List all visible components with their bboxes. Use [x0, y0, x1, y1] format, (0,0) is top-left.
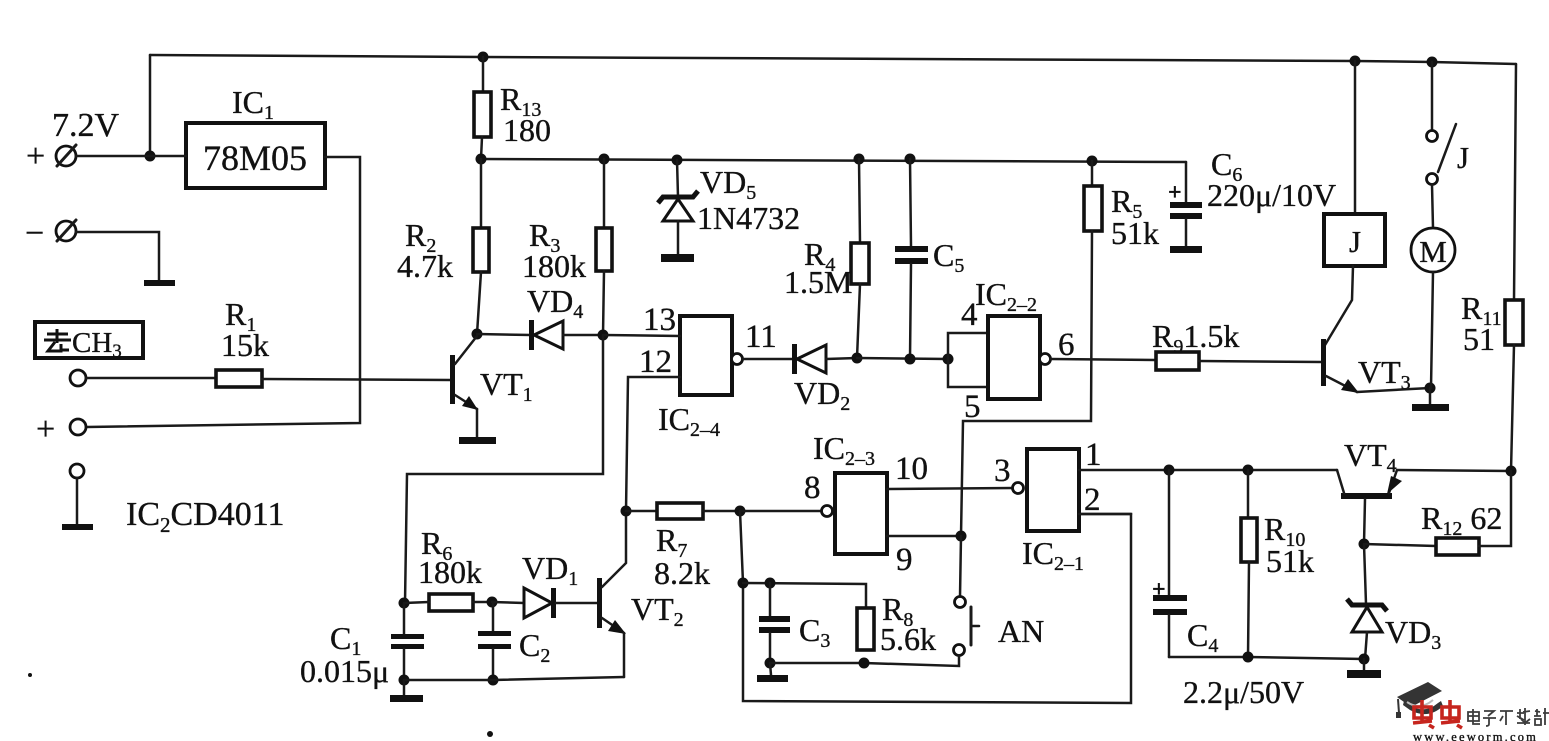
resistor R2 — [473, 228, 489, 272]
node: C3 row tie — [738, 578, 749, 589]
svg-text:M: M — [1419, 234, 1447, 269]
node: C5 bottom — [905, 354, 916, 365]
node: R11 / R12 corner — [1506, 466, 1517, 477]
wire: R5 from +5V rail — [1091, 161, 1094, 186]
watermark: dianzi xiazaizhan text — [1468, 708, 1549, 726]
transistor Q4: VT4 left lead — [1337, 470, 1344, 493]
wire: rail to C5 top plate — [910, 159, 911, 246]
terminal: CH3 signal circle — [70, 370, 86, 386]
wire: input tie loop to pins 4 and 5 — [948, 333, 988, 359]
node: C2 bottom — [488, 675, 499, 686]
node: R8 bottom — [859, 658, 870, 669]
capacitor C3 — [759, 583, 790, 663]
wire: IC1 output down and left to +5V terminal row — [87, 157, 360, 427]
wire: relay to VT3 collector — [1325, 266, 1353, 345]
capacitor C2 — [478, 602, 511, 680]
node: C3 top — [765, 578, 776, 589]
wire: top supply rail — [150, 55, 1516, 64]
nand gate IC2-4 box — [680, 316, 732, 395]
wire: node to R12 — [1364, 544, 1436, 546]
resistor R5 — [1084, 186, 1102, 231]
wire: R5 bottom crossing gate-6 wire down then left to pin9 column — [961, 231, 1092, 536]
wire: top rail corner down to R11 — [1514, 64, 1516, 300]
wire: pin 10 output to IC2-1 bubble — [887, 488, 1013, 489]
node: C1 bottom — [399, 675, 410, 686]
diode VD2 — [792, 344, 857, 374]
wire: node to VD1 — [492, 602, 524, 603]
wire: +5V distribution rail — [481, 159, 1186, 162]
svg-text:3: 3 — [994, 453, 1011, 489]
resistor R6 — [429, 594, 473, 611]
transistor Q1: VT1 base bar — [450, 355, 455, 404]
wire: rail to switch — [1431, 62, 1434, 130]
svg-text:8: 8 — [804, 470, 821, 506]
node: R13/R2 — [476, 154, 487, 165]
node: R6 / C2 / VD1 — [487, 597, 498, 608]
node: C3 bottom — [765, 658, 776, 669]
capacitor C5 — [895, 246, 928, 264]
nand gate IC2-1 box — [1027, 449, 1079, 531]
nand gate IC2-2 box — [988, 316, 1040, 399]
resistor R10 — [1241, 518, 1257, 562]
terminal: battery - (slashed circle) — [56, 220, 76, 241]
label qu glyph (CJK) inside CH3 box — [44, 329, 71, 351]
svg-text:+: + — [36, 411, 55, 448]
resistor R3 — [596, 228, 612, 271]
svg-text:1N4732: 1N4732 — [697, 200, 800, 236]
node: VT4 base / R12 / VD3 — [1359, 539, 1370, 550]
wire: R10 to bottom row — [1248, 562, 1249, 657]
wire: R12 node down to VD3 — [1364, 544, 1366, 604]
wire: battery+ to junction — [76, 155, 150, 158]
node: C5 top — [905, 154, 916, 165]
node: junction battery+ / IC1 input — [145, 151, 156, 162]
ground (C3 bottom) — [757, 663, 788, 682]
transistor Q1: VT1 emitter lead with arrow — [455, 395, 478, 410]
svg-text:9: 9 — [896, 542, 913, 578]
output bubble pin 6 — [1040, 354, 1051, 365]
wire: R11 to VT4 node — [1511, 345, 1514, 471]
wire: gate 6 output to R9 — [1051, 359, 1156, 360]
node: top rail / switch column — [1427, 57, 1438, 68]
node: R10 bottom — [1243, 652, 1254, 663]
wire: node to R10 — [1247, 470, 1250, 518]
transistor Q4: VT4 right lead with arrow — [1387, 470, 1402, 494]
wire: pin 13 input — [603, 335, 680, 336]
svg-text:12: 12 — [639, 344, 672, 380]
node: IC2-2 input tie — [943, 354, 954, 365]
op-amp U1: IC1 78M05 regulator box — [186, 123, 325, 188]
terminal: spare circle above IC2 label — [70, 464, 84, 478]
stray mark bottom left — [28, 673, 32, 677]
node: pin 9 / AN column — [956, 531, 967, 542]
wire: rail to R4 — [859, 159, 860, 243]
terminal: +5V output circle — [70, 419, 86, 435]
node: VD2 / R4 — [852, 353, 863, 364]
svg-text:5: 5 — [964, 389, 981, 425]
node: R3 top — [599, 154, 610, 165]
wire: rail to R3 — [603, 159, 606, 228]
transistor Q2: VT2 emitter with arrow — [602, 618, 626, 677]
switch J blade — [1438, 124, 1456, 172]
ground (VD5 anode termination) — [661, 254, 694, 262]
capacitor C6 (electrolytic) — [1170, 202, 1202, 246]
svg-text:4.7k: 4.7k — [397, 248, 453, 284]
wire: node down, left and down to R6 node — [405, 335, 603, 603]
svg-text:2.2μ/50V: 2.2μ/50V — [1183, 674, 1304, 710]
wire: node to IC2-3 input bubble — [740, 510, 821, 513]
svg-text:13: 13 — [643, 302, 676, 338]
wire: R8 bottom row to AN bottom — [770, 656, 959, 666]
input bubble pin 3 — [1013, 483, 1024, 494]
wire: pin 9 to AN column — [887, 535, 961, 538]
node: VT2 collector / R7 / pin12 — [621, 506, 632, 517]
wire: node to ground — [1429, 388, 1432, 404]
svg-text:AN: AN — [998, 613, 1044, 649]
wire: VD2 node to IC2-2 inputs — [857, 358, 948, 359]
wire: pin 1 output to VT4 — [1079, 469, 1337, 472]
zener diode VD3 — [1347, 599, 1387, 659]
node: R7 / pin8 / C3 column — [735, 506, 746, 517]
wire: column down to AN button — [960, 536, 961, 597]
wire: R12 up to R11 node — [1479, 471, 1511, 546]
wire: pin 12 input from R7 node — [626, 377, 680, 511]
svg-text:www.eeworm.com: www.eeworm.com — [1413, 730, 1538, 741]
wire: R7 to pin8 node — [703, 510, 740, 513]
wire: left drop from top rail to battery + — [149, 55, 152, 156]
wire: bottom row C4 to VD3 — [1169, 657, 1364, 659]
svg-text:10: 10 — [895, 451, 928, 487]
svg-text:7.2V: 7.2V — [52, 107, 120, 144]
resistor R9 — [1156, 352, 1199, 370]
svg-text:J: J — [1349, 224, 1361, 259]
wire: node to R6 — [404, 602, 429, 603]
svg-text:15k: 15k — [221, 327, 269, 363]
wire: pin 2 stub — [1079, 513, 1131, 516]
transistor Q3: VT3 base bar — [1321, 339, 1326, 386]
node: R6 / C1 top — [399, 598, 410, 609]
box: qu CH3 (to CH3) — [35, 322, 143, 358]
svg-text:51k: 51k — [1111, 215, 1159, 251]
ground (VT1 emitter) — [459, 437, 496, 444]
diode VD4 — [477, 320, 604, 350]
node: R5/C6 — [1087, 156, 1098, 167]
node: VT1 collector / VD4 cathode — [472, 329, 483, 340]
wire: R13 to +5V rail — [481, 137, 482, 159]
zener diode VD5 — [658, 160, 698, 254]
motor M — [1411, 228, 1455, 272]
wire: switch to motor — [1432, 185, 1433, 228]
transistor Q2: VT2 base bar — [597, 578, 602, 628]
node: VD5 top — [672, 155, 683, 166]
node: VD3 bottom — [1359, 654, 1370, 665]
svg-text:−: − — [25, 215, 44, 252]
node: VT3 emitter / motor return — [1425, 383, 1436, 394]
diode VD1 — [524, 588, 597, 618]
wire: R6 to C2 node — [473, 601, 492, 604]
svg-text:IC2CD4011: IC2CD4011 — [126, 496, 284, 537]
nand gate IC2-3 box — [835, 473, 887, 554]
wire: node to R7 — [626, 510, 657, 513]
capacitor C4 (electrolytic) — [1153, 470, 1187, 657]
wire: terminal through R1 to VT1 base — [86, 377, 216, 380]
wire: rail to R2 — [480, 159, 483, 228]
input bubble pin 8 — [822, 506, 833, 517]
wire: VT3 emitter to ground node — [1357, 388, 1430, 392]
transistor Q1: VT1 collector lead — [455, 336, 477, 364]
ground (battery minus) — [144, 280, 175, 286]
transistor Q4: VT4 bar (horizontal) — [1341, 493, 1392, 499]
wire: IC1 input lead — [150, 155, 186, 158]
svg-text:2: 2 — [1084, 482, 1101, 518]
watermark: chongchong red characters — [1413, 700, 1462, 728]
resistor R13 — [474, 92, 491, 137]
svg-text:8.2k: 8.2k — [654, 555, 710, 591]
transistor Q2: VT2 collector lead — [602, 511, 626, 587]
svg-text:5.6k: 5.6k — [880, 621, 936, 657]
ground (spare terminal) — [62, 524, 93, 530]
wire: battery- to ground — [76, 232, 159, 280]
svg-text:0.015μ: 0.015μ — [300, 653, 389, 689]
resistor R4 — [851, 243, 869, 284]
wire: gate output to VD2 — [743, 358, 794, 361]
output bubble pin 11 — [732, 354, 743, 365]
resistor R8 — [857, 608, 874, 650]
wire: C5 bottom to gate input wire — [910, 264, 911, 359]
resistor R1 — [216, 370, 262, 387]
wire: R9 to VT3 base — [1199, 361, 1322, 362]
wire: C3 row to R8 — [743, 583, 866, 608]
svg-text:+: + — [26, 138, 45, 175]
wire: R3 down to VD4 node — [603, 271, 604, 335]
node: top rail / R13 junction — [478, 52, 489, 63]
wire: rail to R13 — [482, 57, 485, 92]
svg-text:6: 6 — [1058, 327, 1075, 363]
transistor Q3: VT3 emitter with arrow — [1326, 376, 1359, 393]
wire: column down from R7 node to C3 row and bottom return — [740, 511, 1131, 703]
svg-text:220μ/10V: 220μ/10V — [1207, 177, 1336, 213]
ground (C1 bottom) — [390, 680, 423, 702]
svg-text:180: 180 — [503, 112, 551, 148]
node: pin1 / C4 top — [1164, 465, 1175, 476]
wire: rail down to relay J — [1354, 61, 1357, 214]
terminal: battery + (slashed circle) — [56, 145, 76, 166]
relay J coil box — [1324, 214, 1385, 266]
svg-text:180k: 180k — [522, 248, 586, 284]
wire: VT4 base down to R12 node — [1364, 499, 1365, 544]
ground (C6 negative termination) — [1170, 246, 1202, 253]
node: pin1 / R10 top — [1243, 465, 1254, 476]
ground (VT3 emitter) — [1412, 404, 1449, 411]
wire: emitter return C1-C2-VT2 — [404, 677, 624, 680]
wire: spare terminal to ground — [76, 478, 79, 524]
svg-text:51k: 51k — [1266, 543, 1314, 579]
watermark: graduation cap icon — [1396, 682, 1443, 718]
pushbutton AN actuator — [971, 607, 979, 645]
stray mark bottom center — [487, 731, 493, 737]
svg-text:J: J — [1457, 140, 1469, 175]
wire: VT4 right lead to R11 node — [1397, 470, 1511, 471]
svg-text:78M05: 78M05 — [203, 138, 307, 178]
capacitor C1 — [391, 603, 424, 680]
wire: motor to emitter node — [1431, 272, 1433, 388]
wire: R4 to VD2 node — [857, 284, 860, 358]
svg-text:1.5M: 1.5M — [784, 264, 852, 300]
node: R4 top — [854, 154, 865, 165]
svg-text:1: 1 — [1085, 437, 1102, 473]
svg-text:R12 62: R12 62 — [1421, 500, 1502, 540]
node: R3 / VD4 / pin13 — [598, 330, 609, 341]
resistor R11 — [1505, 300, 1523, 345]
svg-text:11: 11 — [745, 319, 777, 355]
wire: VT1 emitter to ground — [476, 409, 479, 437]
wire: +5V rail corner to C6 — [1185, 162, 1188, 202]
resistor R12 — [1436, 538, 1479, 555]
svg-text:180k: 180k — [418, 554, 482, 590]
pushbutton AN contacts — [954, 597, 966, 656]
ground (VD3 anode) — [1347, 659, 1381, 678]
node: top rail / relay J column — [1350, 56, 1361, 67]
svg-text:R91.5k: R91.5k — [1152, 318, 1239, 358]
svg-text:51: 51 — [1463, 321, 1495, 357]
switch J contact circles — [1427, 131, 1438, 185]
wire: R1 to VT1 base — [262, 379, 451, 380]
wire: R2 to VT1 collector node — [477, 272, 481, 334]
resistor R7 — [657, 503, 703, 519]
